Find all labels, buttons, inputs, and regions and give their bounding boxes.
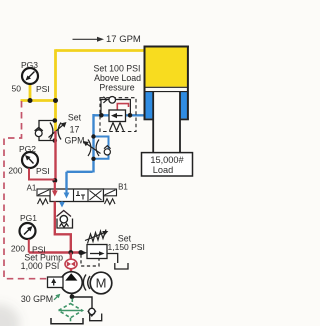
svg-text:A1: A1 bbox=[27, 184, 37, 193]
svg-text:PG2: PG2 bbox=[19, 144, 36, 154]
svg-text:PG1: PG1 bbox=[20, 213, 37, 223]
svg-text:Above Load: Above Load bbox=[94, 73, 141, 83]
svg-text:1,000 PSI: 1,000 PSI bbox=[21, 261, 60, 271]
svg-text:200: 200 bbox=[11, 244, 25, 254]
svg-text:17: 17 bbox=[70, 125, 80, 135]
svg-text:PSI: PSI bbox=[36, 84, 50, 94]
svg-text:200: 200 bbox=[8, 166, 22, 176]
svg-text:PSI: PSI bbox=[36, 166, 50, 176]
svg-text:15,000#: 15,000# bbox=[150, 155, 184, 165]
svg-text:GPM: GPM bbox=[64, 136, 84, 146]
svg-text:B1: B1 bbox=[118, 183, 128, 192]
svg-text:M: M bbox=[96, 276, 107, 291]
svg-text:Load: Load bbox=[153, 165, 173, 175]
svg-text:Pressure: Pressure bbox=[99, 83, 134, 93]
svg-text:17 GPM: 17 GPM bbox=[106, 34, 141, 45]
svg-text:1,150 PSI: 1,150 PSI bbox=[108, 242, 145, 252]
svg-text:30 GPM: 30 GPM bbox=[21, 294, 53, 304]
svg-text:Set 100 PSI: Set 100 PSI bbox=[94, 64, 141, 74]
svg-text:50: 50 bbox=[12, 84, 22, 94]
svg-text:Set: Set bbox=[68, 113, 82, 123]
svg-text:PG3: PG3 bbox=[21, 60, 38, 70]
